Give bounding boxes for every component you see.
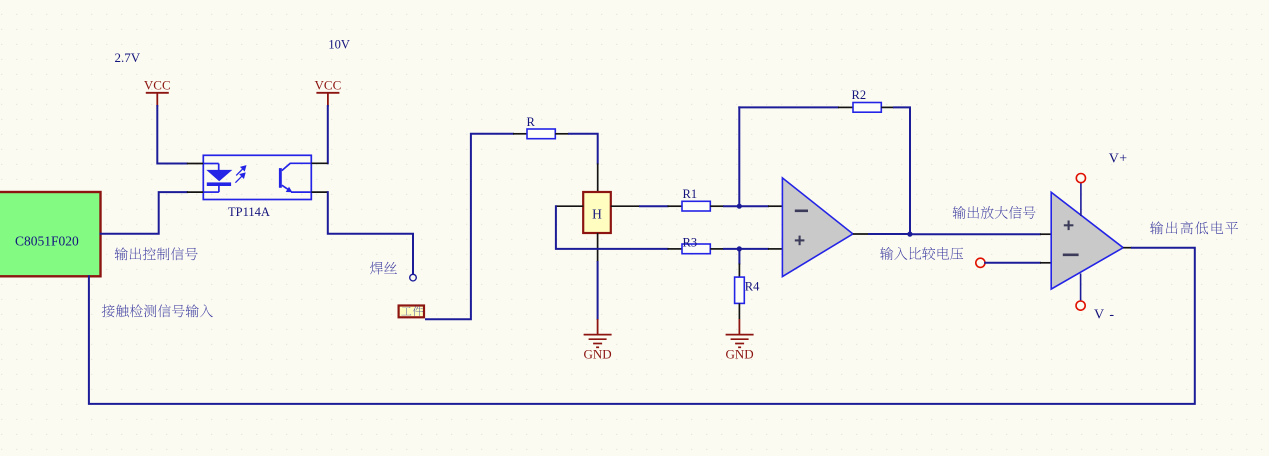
svg-text:R4: R4 xyxy=(745,279,760,293)
label 焊丝 (welding wire) xyxy=(370,262,397,275)
optocoupler U1 pin 2 (cathode) xyxy=(187,191,204,193)
power VCC (10V rail) xyxy=(315,78,342,107)
H right pin xyxy=(611,205,640,207)
junction node B (R3/R4/op-amp non-inverting) xyxy=(737,246,742,251)
wire U3 output to MCU input (bottom return) xyxy=(89,248,1195,404)
optocoupler U1 LED xyxy=(203,164,231,193)
power VCC (2.7V rail) xyxy=(144,78,171,107)
wire workpiece to resistor R xyxy=(426,134,513,319)
svg-text:R: R xyxy=(527,115,536,129)
resistor R3 xyxy=(682,236,710,254)
wire feedback top run xyxy=(739,106,838,108)
ground stem (left) xyxy=(597,319,599,335)
net label 输出放大信号 (amplified output signal) xyxy=(953,206,1036,219)
optocoupler U1 TP114A body xyxy=(203,155,311,199)
H top pin xyxy=(597,164,599,193)
wire R3 to non-inverting node xyxy=(724,248,739,250)
welding wire open terminal xyxy=(410,274,417,281)
svg-text:R2: R2 xyxy=(852,88,867,102)
wire opto emitter to welding-wire terminal xyxy=(328,192,413,274)
op-amp U2 non-inverting input pin xyxy=(768,248,782,250)
resistor R1 xyxy=(682,187,710,211)
wire VCC 10V rail to opto collector xyxy=(327,106,329,163)
junction node A (R1/R2/op-amp inverting) xyxy=(737,204,742,209)
wire VCC 2.7V rail to opto anode xyxy=(157,106,187,164)
svg-text:TP114A: TP114A xyxy=(228,205,270,219)
wire resistor R to H top xyxy=(569,134,598,164)
svg-text:R3: R3 xyxy=(683,236,698,250)
op-amp U2 xyxy=(782,178,853,277)
op-amp U3 non-inverting input pin xyxy=(1040,233,1051,235)
op-amp U3 (comparator) xyxy=(1051,192,1123,289)
resistor R4 top pin xyxy=(738,264,740,278)
workpiece terminal 工件 xyxy=(399,306,424,318)
op-amp U2 output pin xyxy=(853,233,869,235)
svg-text:GND: GND xyxy=(584,347,612,362)
wire node A to op-amp U2 inverting input xyxy=(739,205,768,207)
svg-text:V -: V - xyxy=(1094,308,1115,323)
svg-text:R1: R1 xyxy=(683,187,698,201)
svg-text:2.7V: 2.7V xyxy=(115,50,141,65)
MCU block C8051F020 xyxy=(0,192,101,276)
svg-text:10V: 10V xyxy=(328,37,350,51)
net label 输出高低电平 (output high/low level) xyxy=(1150,221,1238,234)
op-amp U3 V+ supply pin xyxy=(1076,174,1085,217)
optocoupler U1 phototransistor xyxy=(279,163,311,192)
optocoupler U1 light arrows xyxy=(235,166,245,183)
compare-voltage open terminal xyxy=(976,258,985,267)
H left pin xyxy=(556,205,583,207)
resistor R3 right pin xyxy=(710,248,724,250)
wire U2 output to node C xyxy=(869,233,910,235)
svg-text:C8051F020: C8051F020 xyxy=(15,233,79,248)
net label 接触检测信号输入 (touch detect signal input) xyxy=(102,304,213,317)
svg-text:H: H xyxy=(592,206,602,221)
wire node B to op-amp U2 non-inverting input xyxy=(739,248,768,250)
ground GND (left) xyxy=(584,335,612,362)
resistor R2 right pin xyxy=(881,106,894,108)
svg-text:V+: V+ xyxy=(1109,151,1128,166)
op-amp U3 inverting input pin xyxy=(1040,262,1051,264)
resistor R3 left pin xyxy=(668,248,683,250)
resistor R1 left pin xyxy=(668,205,683,207)
optocoupler U1 pin 4 (collector) xyxy=(311,162,328,164)
op-amp U3 V- supply pin xyxy=(1076,274,1085,311)
H bottom pin xyxy=(597,233,599,262)
wire R2 to output node xyxy=(894,107,910,234)
svg-text:GND: GND xyxy=(726,347,754,362)
wire MCU output to opto cathode xyxy=(101,192,188,234)
resistor R4 bottom pin xyxy=(738,303,740,319)
op-amp U2 inverting input pin xyxy=(768,205,782,207)
optocoupler U1 pin 3 (emitter) xyxy=(311,191,328,193)
junction node C (U2 output / R2 / U3 input) xyxy=(907,232,912,237)
wire H bottom to ground xyxy=(597,262,599,319)
net label 输出控制信号 (output control signal) xyxy=(115,247,198,260)
resistor R left pin xyxy=(513,133,527,135)
wire H left pin down to R3 xyxy=(556,206,668,249)
resistor R2 xyxy=(852,88,882,112)
resistor R xyxy=(527,115,556,139)
net label 输入比较电压 (compare voltage input) xyxy=(880,247,963,260)
wire node C to op-amp U3 non-inverting input xyxy=(910,233,1040,235)
wire compare terminal to U3 inverting input xyxy=(985,262,1040,264)
component H body xyxy=(583,192,611,233)
wire node A up to feedback xyxy=(738,107,740,206)
label 工件 (workpiece) text xyxy=(401,306,423,316)
resistor R right pin xyxy=(555,133,569,135)
ground stem (right) xyxy=(738,319,740,335)
ground GND (right) xyxy=(726,335,754,362)
resistor R2 left pin xyxy=(838,106,853,108)
resistor R1 right pin xyxy=(710,205,724,207)
svg-text:VCC: VCC xyxy=(315,78,342,93)
wire R1 to inverting node xyxy=(724,205,739,207)
wire node B down to R4 xyxy=(738,249,740,264)
svg-text:VCC: VCC xyxy=(144,78,171,93)
op-amp U3 output pin xyxy=(1123,247,1132,249)
wire H right pin to R1 xyxy=(640,205,668,207)
resistor R4 xyxy=(735,277,761,303)
optocoupler U1 pin 1 (anode) xyxy=(187,163,204,165)
